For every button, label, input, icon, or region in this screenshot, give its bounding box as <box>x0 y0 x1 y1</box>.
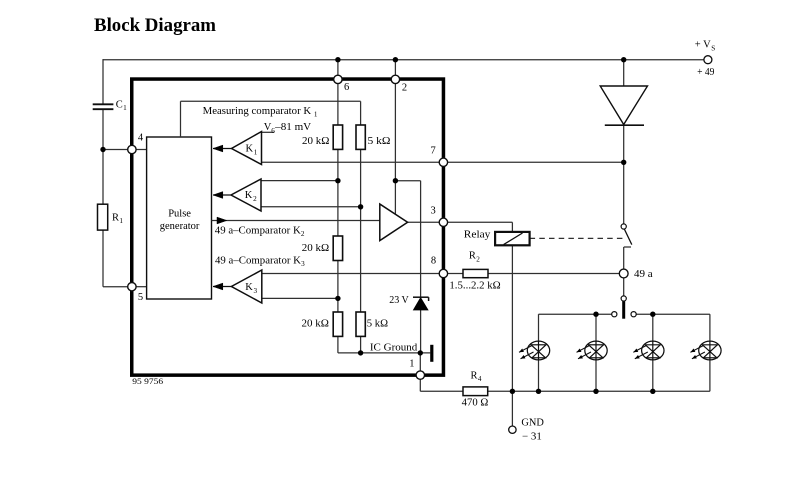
svg-text:7: 7 <box>431 146 436 157</box>
svg-text:5 kΩ: 5 kΩ <box>367 318 388 329</box>
svg-text:2: 2 <box>476 255 480 263</box>
svg-text:R: R <box>471 370 478 381</box>
svg-text:1: 1 <box>123 104 127 112</box>
svg-text:+ 49: + 49 <box>697 67 714 78</box>
svg-text:Pulse: Pulse <box>168 208 191 219</box>
svg-text:IC Ground: IC Ground <box>370 343 418 354</box>
svg-text:20 kΩ: 20 kΩ <box>302 136 330 147</box>
svg-text:+ V: + V <box>695 39 711 50</box>
svg-text:49 a–Comparator K: 49 a–Comparator K <box>215 225 301 236</box>
svg-text:Measuring comparator K: Measuring comparator K <box>203 106 312 117</box>
svg-text:1: 1 <box>409 359 414 370</box>
svg-text:2: 2 <box>253 195 257 203</box>
svg-text:C: C <box>116 100 123 111</box>
svg-text:23 V: 23 V <box>389 295 409 306</box>
svg-text:R: R <box>112 213 119 224</box>
svg-text:49 a: 49 a <box>634 269 653 280</box>
svg-text:S: S <box>711 45 715 53</box>
svg-text:Relay: Relay <box>464 229 491 240</box>
svg-text:4: 4 <box>478 375 482 383</box>
svg-text:2: 2 <box>402 83 407 94</box>
svg-text:20 kΩ: 20 kΩ <box>302 318 330 329</box>
svg-text:8: 8 <box>431 256 436 267</box>
svg-text:generator: generator <box>160 221 200 232</box>
svg-text:1: 1 <box>314 111 318 119</box>
svg-text:6: 6 <box>344 82 349 93</box>
svg-text:3: 3 <box>254 287 258 295</box>
svg-text:R: R <box>469 251 476 262</box>
svg-text:95 9756: 95 9756 <box>132 377 163 386</box>
svg-text:Block Diagram: Block Diagram <box>94 15 216 36</box>
svg-text:49 a–Comparator K: 49 a–Comparator K <box>215 255 301 266</box>
svg-text:3: 3 <box>301 260 305 268</box>
svg-text:5 kΩ: 5 kΩ <box>368 136 391 147</box>
svg-text:2: 2 <box>301 230 305 238</box>
svg-text:3: 3 <box>431 206 436 217</box>
svg-text:5: 5 <box>138 292 143 303</box>
svg-text:− 31: − 31 <box>522 432 542 443</box>
svg-text:GND: GND <box>521 418 544 429</box>
svg-text:4: 4 <box>138 132 144 143</box>
svg-text:470 Ω: 470 Ω <box>462 397 489 408</box>
svg-text:1: 1 <box>254 148 258 156</box>
svg-text:–81 mV: –81 mV <box>274 122 311 133</box>
svg-text:K: K <box>246 144 254 155</box>
svg-text:20 kΩ: 20 kΩ <box>302 243 330 254</box>
svg-text:1.5...2.2 kΩ: 1.5...2.2 kΩ <box>449 280 500 291</box>
svg-text:1: 1 <box>119 217 123 225</box>
svg-text:K: K <box>245 282 253 293</box>
svg-text:K: K <box>245 190 253 201</box>
